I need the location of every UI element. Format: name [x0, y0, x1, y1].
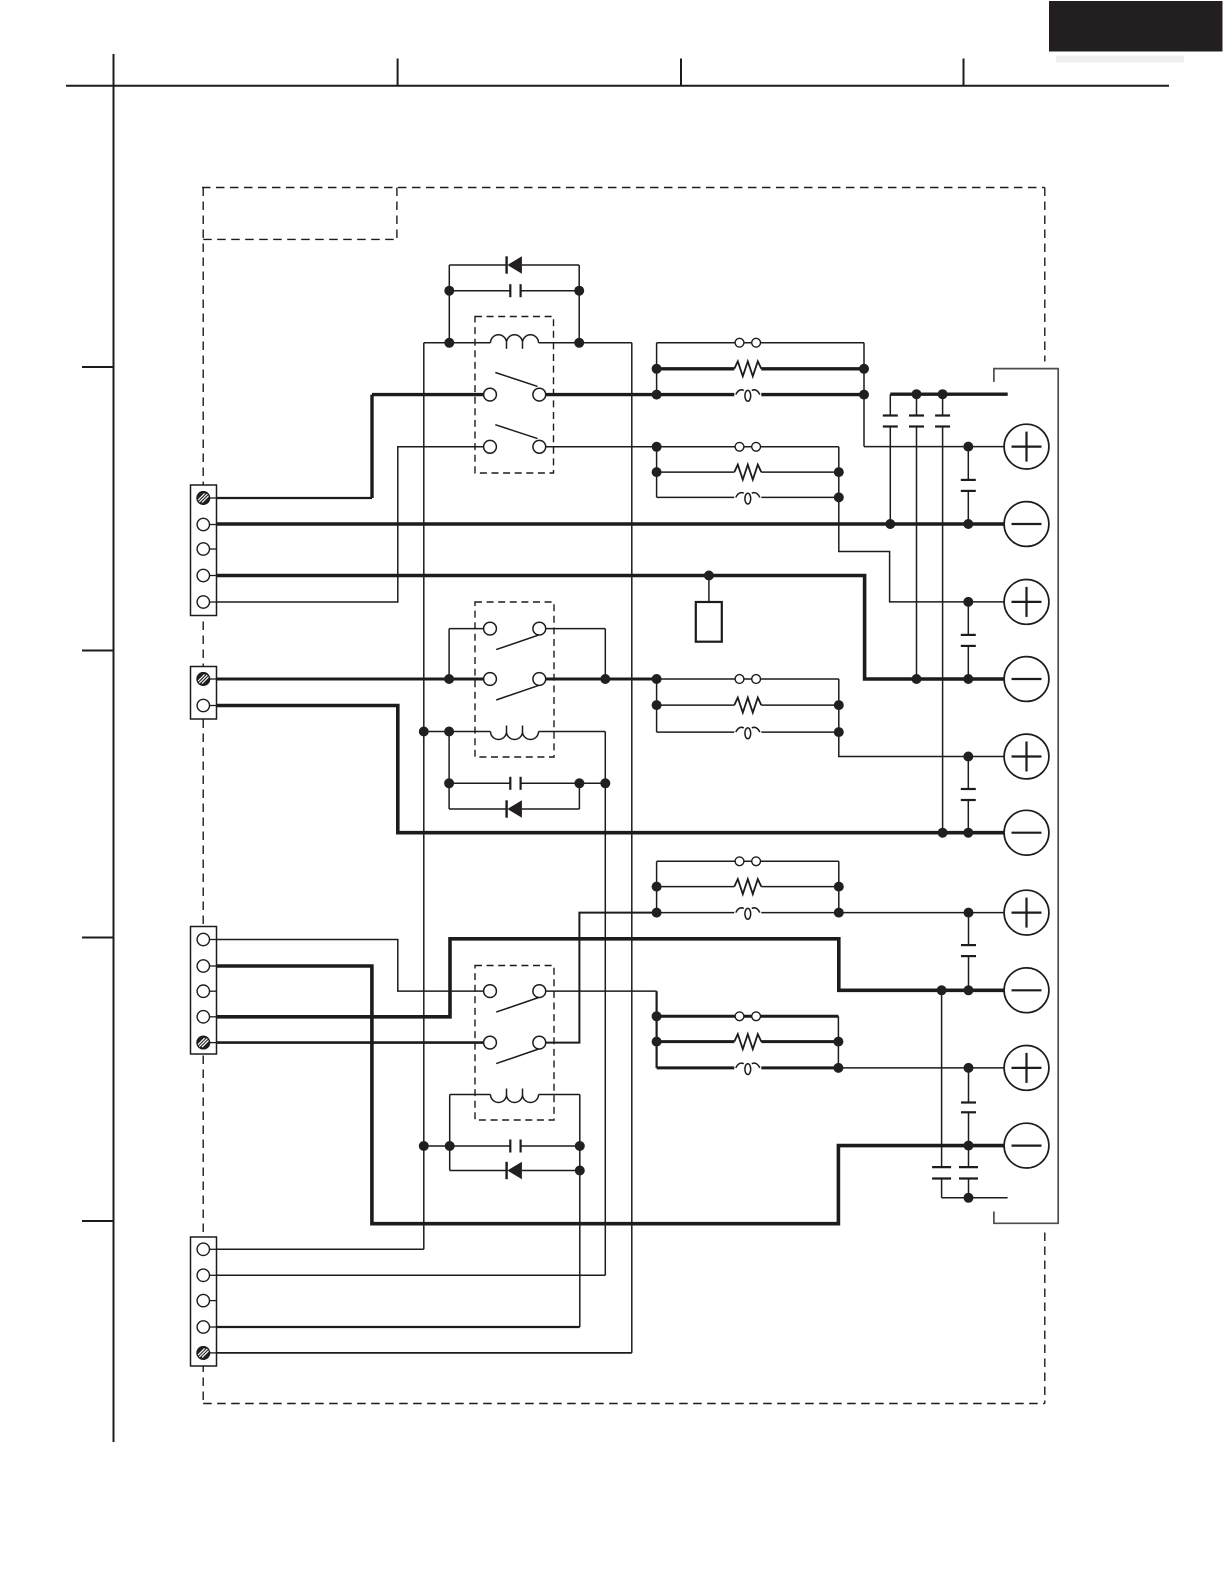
page border: left tick 1 [82, 366, 114, 368]
wire: RY3 contact2 output riser to network N4 [546, 913, 657, 1043]
wire: RY1 snubber left leg [448, 265, 450, 343]
junction: RY1 cap row right [574, 286, 584, 296]
wire: CN2 pin2 speaker return rail 3 [217, 706, 1005, 833]
relay RY3 contact 1 circles [484, 985, 546, 998]
terminal SP5- [1004, 1123, 1049, 1168]
junction: C25 bottom [964, 1141, 974, 1151]
terminal SP1- [1004, 502, 1049, 547]
board outline (dashed) [202, 188, 1045, 1404]
page border: left rule [113, 54, 115, 1442]
wire: CN1 pin1 to RY1 contact1 (speaker A L+ feed) [217, 395, 484, 498]
fuse F3 (network N3) [657, 727, 839, 738]
wire: N4 output to terminal 4+ [839, 912, 1004, 914]
connector CN4 pin 4 [197, 1321, 216, 1333]
wire: CN4 pin4 to RY3 coil drive bus [217, 1326, 580, 1328]
connector CN1 pin 5 [197, 596, 216, 608]
wire: relay RY1 coil drive bus (vertical x=631.8) [631, 343, 633, 1353]
terminal SP3- [1004, 810, 1049, 855]
wire: relay RY3 coil drive bus (vertical x=579.8) [579, 1095, 581, 1328]
capacitor C26 (below terminal 5, left) [932, 990, 951, 1198]
junction: rail2 box tap [704, 571, 714, 581]
terminal SP5+ [1004, 1046, 1049, 1091]
network N4 jumper row [657, 857, 839, 866]
capacitor C21 (across terminals 1) [961, 447, 976, 524]
resistor R3 (network N3) [657, 698, 839, 713]
junction: RY2 cap left [444, 778, 454, 788]
diode D1 (RY1 snubber) [449, 256, 579, 273]
wire: CN3 pin2 speaker return rail 5 [217, 966, 1005, 1224]
title block (filled) [1049, 1, 1223, 63]
fuse F5 (network N5) [657, 1063, 839, 1074]
junction: N3 input [652, 674, 662, 684]
diode D3 (RY3 snubber) [450, 1162, 580, 1179]
connector CN4 pin 5 [196, 1347, 217, 1360]
junction: C13 top [938, 389, 948, 399]
connector CN4 pin 3 [197, 1294, 216, 1306]
network N3 jumper row [657, 675, 839, 684]
junction: N2 jumper left [652, 442, 662, 452]
resistor R1 (network N1) [657, 361, 864, 376]
connector CN3 pin 2 [197, 960, 216, 972]
junction: C24 bottom [964, 985, 974, 995]
page border: left tick 2 [82, 650, 114, 652]
wire: capacitor top rail (C11-C13) [890, 393, 1007, 396]
junction: N2 resistor right [834, 467, 844, 477]
relay RY3 box (dashed) [475, 966, 554, 1121]
terminal SP2- [1004, 657, 1049, 702]
connector CN3 pin 4 [197, 1011, 216, 1023]
wire: RY2 snubber left leg [448, 732, 450, 810]
wire: relay RY2 coil drive bus (vertical x=605.3) [604, 732, 606, 1276]
relay RY1 contact 1 circles [484, 388, 546, 401]
junction: C22 bottom [963, 674, 973, 684]
connector CN2 pin 2 [197, 699, 216, 711]
junction: N2 resistor left [652, 467, 662, 477]
connector CN3 body [191, 927, 217, 1055]
wire: C26/C27 bottom link [942, 1197, 1008, 1199]
connector CN3 pin 3 [197, 985, 216, 997]
connector CN1 pin 3 [197, 543, 216, 555]
resistor R2 (network N2) [657, 465, 839, 480]
wire: RY2 contact1 right jumper [546, 629, 606, 679]
page border: left tick 3 [82, 937, 114, 939]
wire: CN3 pin4 speaker return rail 4 [217, 939, 1005, 1017]
capacitor C2 (RY2 snubber) [449, 777, 605, 790]
wire: RY2 contact1 left jumper [449, 629, 484, 679]
wire: N4 left leg [656, 861, 658, 912]
junction: C21 bottom [963, 519, 973, 529]
wire: RY3 snubber left leg [449, 1095, 451, 1171]
coil RY3 [450, 1089, 580, 1103]
network N2 jumper row [657, 442, 839, 451]
junction: N4 resistor left [652, 882, 662, 892]
junction: RY3 cap row left [445, 1141, 455, 1151]
relay RY2 contact 1 arm [496, 635, 539, 650]
connector CN3 pin 5 [196, 1036, 217, 1049]
page border: top tick 2 [680, 59, 682, 86]
junction: C23 top [963, 752, 973, 762]
wire: CN1 pin5 to RY1 contact2 [217, 447, 484, 602]
wire: N1 right leg to terminal 1+ [864, 343, 1004, 447]
junction: C25 top [964, 1063, 974, 1073]
wire: RY2 contact2 output to network N3 [546, 678, 657, 681]
wire: CN2 pin1 to RY2 contact2 row [217, 678, 484, 681]
capacitor C3 (RY3 snubber) [424, 1140, 580, 1153]
junction: C26 top on rail4 [937, 985, 947, 995]
terminal SP4+ [1004, 890, 1049, 935]
board outline notch (dashed) [203, 188, 397, 240]
junction: N3 fuse right [834, 727, 844, 737]
junction: C11 bottom on rail1 [885, 519, 895, 529]
connector CN4 pin 2 [197, 1269, 216, 1281]
wire: N1 left leg [656, 343, 658, 395]
junction: N5 resistor right [833, 1037, 843, 1047]
junction: N1 fuse right [859, 390, 869, 400]
wire: CN1 pin2 speaker return rail 1 [217, 522, 1005, 526]
wire: N3 left leg [656, 679, 658, 732]
network N1 jumper row [657, 338, 864, 347]
relay RY1 contact 2 arm [495, 425, 537, 439]
junction: C24 top [964, 908, 974, 918]
connector CN1 body [191, 485, 217, 616]
capacitor C1 (RY1 snubber) [449, 284, 579, 297]
wire: RY1 contact2 output to network N2 [546, 446, 657, 448]
junction: N4 resistor right [834, 882, 844, 892]
junction: N5 fuse right [833, 1063, 843, 1073]
terminal SP4- [1004, 968, 1049, 1013]
speaker terminal panel outline [994, 369, 1058, 1224]
resistor R4 (network N4) [657, 879, 839, 894]
wire: CN3 pin1 to RY3 contact1 [217, 940, 484, 992]
terminal SP2+ [1004, 580, 1049, 625]
page border: top tick 1 [397, 59, 399, 86]
relay RY3 contact 1 arm [496, 998, 539, 1013]
junction: C23 bottom [963, 828, 973, 838]
junction: RY3 cap row on supply bus [419, 1141, 429, 1151]
wire: CN1 pin4 speaker return rail 2 [217, 576, 1005, 680]
fuse F2 (network N2) [657, 493, 839, 504]
junction: RY2 cap / diode leg [574, 778, 584, 788]
wire: RY2 snubber right leg [578, 783, 580, 809]
relay RY3 contact 2 arm [496, 1049, 539, 1064]
capacitor C13 (terminal pair 3) [935, 394, 950, 833]
junction: N2 fuse right [834, 492, 844, 502]
junction: N5 resistor left [652, 1037, 662, 1047]
diode D2 (RY2 snubber) [449, 800, 579, 817]
junction: C22 top [963, 597, 973, 607]
page border: left tick 4 [82, 1220, 114, 1222]
relay RY2 contact 1 circles [484, 622, 546, 635]
relay RY1 contact 2 circles [484, 440, 546, 453]
wire: N5 right leg [837, 1016, 839, 1068]
page border: top rule [66, 85, 1169, 87]
wire: N3 right leg to terminal 3+ [839, 679, 1004, 757]
capacitor C23 (across terminals 3) [961, 757, 976, 833]
capacitor C11 (terminal pair 1) [883, 394, 898, 524]
wire: CN4 pin1 to relay supply bus [217, 1248, 424, 1250]
connector CN3 pin 1 [197, 933, 216, 945]
connector CN4 body [191, 1237, 217, 1366]
wire: N2 right leg to terminal 2+ [839, 447, 1004, 602]
wire: N2 left leg [656, 447, 658, 498]
terminal SP1+ [1004, 424, 1049, 469]
wire: RY1 contact1 output to network N1 [546, 393, 657, 396]
junction: C27 bottom [964, 1193, 974, 1203]
connector CN1 pin 2 [197, 518, 216, 530]
junction: C12 top [912, 389, 922, 399]
connector CN1 pin 1 [196, 492, 217, 505]
junction: N4 fuse left [652, 908, 662, 918]
fuse F1 (network N1) [657, 390, 864, 401]
capacitor C27 (below terminal 5, right) [959, 1146, 978, 1198]
junction: RY2 cap right on drive bus [600, 778, 610, 788]
junction: RY3 diode row right [575, 1166, 585, 1176]
junction: C21 top [963, 442, 973, 452]
junction: RY3 cap row right [575, 1141, 585, 1151]
component box on return rail 2 [696, 576, 722, 642]
wire: CN4 pin2 to RY2 coil drive bus [217, 1274, 606, 1276]
capacitor C25 (across terminals 5) [961, 1068, 976, 1146]
page border: top tick 3 [963, 59, 965, 86]
junction: N1 fuse left [652, 390, 662, 400]
wire: N4 right leg [838, 861, 840, 912]
relay RY3 contact 2 circles [484, 1036, 546, 1049]
connector CN1 pin 4 [197, 569, 216, 581]
terminal SP3+ [1004, 734, 1049, 779]
connector CN2 pin 1 [196, 673, 217, 686]
junction: N1 resistor right [859, 364, 869, 374]
relay RY2 contact 2 circles [484, 673, 546, 686]
wire: RY1 snubber right leg [578, 265, 580, 343]
junction: RY2 coil left [444, 727, 454, 737]
relay RY2 contact 2 arm [496, 685, 539, 700]
coil RY1 [424, 335, 632, 349]
junction: RY2 contact1 right tie [600, 674, 610, 684]
junction: C13 bottom on rail3 [938, 828, 948, 838]
junction: RY1 coil right [574, 338, 584, 348]
relay RY2 box (dashed) [475, 602, 554, 757]
junction: RY2 coil left on supply bus [419, 727, 429, 737]
capacitor C22 (across terminals 2) [961, 602, 976, 679]
capacitor C12 (terminal pair 2) [909, 394, 924, 679]
junction: N3 resistor right [834, 700, 844, 710]
network N5 jumper row [657, 1012, 839, 1021]
junction: N3 resistor left [652, 700, 662, 710]
junction: N4 fuse right [834, 908, 844, 918]
coil RY2 [424, 726, 606, 740]
wire: CN3 pin5 to RY3 contact2 [217, 1041, 484, 1044]
junction: RY1 cap row left [444, 286, 454, 296]
junction: C12 bottom on rail2 [912, 674, 922, 684]
junction: N1 resistor left [652, 364, 662, 374]
wire: CN4 pin5 to RY1 coil drive bus [217, 1352, 632, 1354]
connector CN2 body [191, 667, 217, 720]
junction: N5 jumper left [652, 1011, 662, 1021]
fuse F4 (network N4) [657, 908, 839, 919]
wire: relay supply bus (vertical x=423.8) [423, 343, 425, 1250]
junction: RY1 coil left [444, 338, 454, 348]
junction: RY2 contact1 left tie [444, 674, 454, 684]
relay RY1 box (dashed) [475, 317, 554, 474]
wire: RY3 contact1 output to network N5 [546, 991, 657, 1068]
relay RY1 contact 1 arm [495, 373, 537, 387]
wire: N5 output to terminal 5+ [838, 1067, 1004, 1069]
capacitor C24 (across terminals 4) [961, 913, 976, 991]
connector CN4 pin 1 [197, 1243, 216, 1255]
resistor R5 (network N5) [657, 1034, 839, 1049]
